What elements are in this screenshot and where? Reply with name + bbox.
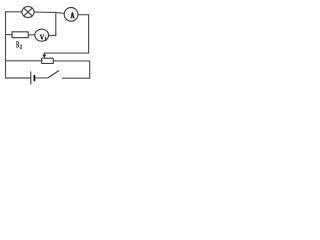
battery short thick plate [34, 75, 36, 81]
battery long plate [30, 71, 32, 84]
wire ammeter to top right corner [78, 14, 89, 16]
wire right vertical lower [89, 61, 91, 78]
switch lever [48, 71, 59, 78]
lamp circle [22, 6, 34, 17]
wire bottom left segment [6, 77, 31, 79]
voltmeter V1 circle [35, 29, 49, 41]
rheostat slider arrow [42, 53, 46, 58]
ammeter A circle [64, 8, 78, 22]
resistor R1 box [12, 32, 28, 38]
rheostat box [42, 58, 54, 63]
wire resistor branch left [6, 34, 13, 36]
wire voltmeter to junction vertical [49, 35, 56, 37]
wire top left segment [6, 11, 23, 13]
wire left vertical [5, 12, 7, 78]
wire slider horizontal [44, 52, 88, 54]
wire resistor to voltmeter [28, 34, 35, 36]
lamp cross [24, 8, 32, 16]
wire junction vertical down to voltmeter branch [55, 12, 57, 35]
wire right vertical upper [88, 15, 90, 53]
wire bottom middle segment [35, 77, 48, 79]
label A in ammeter [71, 13, 75, 18]
label V1 in voltmeter [40, 35, 44, 40]
wire bottom right segment [62, 77, 89, 79]
wire rheostat right terminal [53, 60, 89, 62]
wire rheostat left terminal [6, 60, 42, 62]
wire lamp to junction to ammeter [34, 12, 64, 13]
label R1 under resistor [16, 41, 20, 47]
